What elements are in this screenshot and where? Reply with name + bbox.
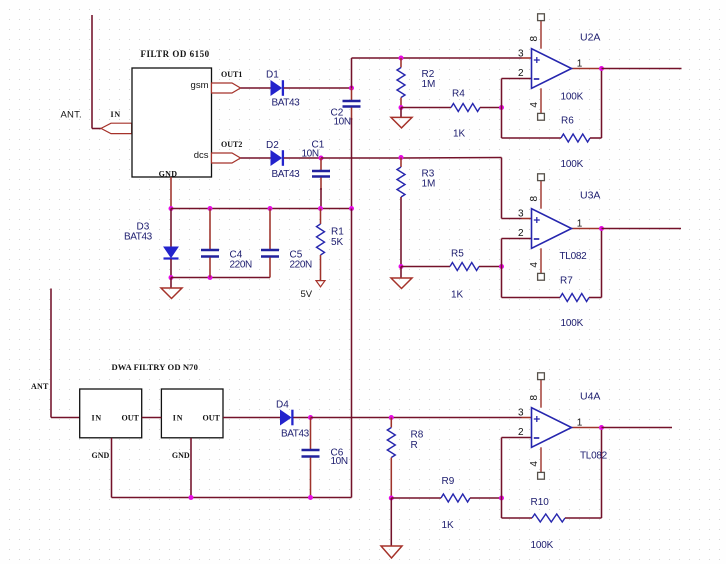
wire R4 to U2A feedback node <box>480 107 502 109</box>
junction C1 top <box>319 156 324 161</box>
wire R6 to U2A output <box>590 137 602 139</box>
svg-text:dcs: dcs <box>194 150 209 161</box>
resistor R5 <box>450 263 479 271</box>
wire U3A pin2 loop <box>502 238 532 240</box>
svg-text:D1: D1 <box>266 70 279 81</box>
svg-text:R7: R7 <box>560 276 573 287</box>
junction C4 bottom <box>208 275 213 280</box>
wire C1 to ground bus <box>320 188 322 209</box>
pin stub U2A pin3 <box>522 57 532 59</box>
port OUT1 <box>212 83 241 93</box>
filter box 1 <box>80 389 142 438</box>
wire ground bus lower <box>171 277 270 279</box>
junction R3 top <box>399 155 404 160</box>
svg-text:5V: 5V <box>301 289 313 300</box>
svg-text:1: 1 <box>577 219 583 230</box>
svg-text:1K: 1K <box>442 520 455 531</box>
op-amp U4A <box>532 379 572 473</box>
svg-text:R10: R10 <box>531 497 550 508</box>
resistor R6 <box>561 134 590 142</box>
wire R8 node to R9 <box>391 497 441 499</box>
diode D1 <box>271 80 283 96</box>
svg-text:GND: GND <box>159 170 178 179</box>
wire ground bus vertical down <box>351 209 353 498</box>
wire U4A output <box>602 427 673 429</box>
svg-text:U3A: U3A <box>580 190 600 202</box>
diode D2 <box>271 150 283 166</box>
junction box2 GND at bus <box>189 495 194 500</box>
wire D4 row to U4A pin3 <box>311 417 392 419</box>
wire ground bus upper <box>171 208 352 210</box>
svg-text:1K: 1K <box>451 290 464 301</box>
ground below R8 <box>381 498 402 558</box>
svg-text:R: R <box>411 440 418 451</box>
diode D4 <box>281 410 293 426</box>
svg-text:1K: 1K <box>453 129 466 140</box>
op-amp U4A output stub <box>572 427 602 429</box>
svg-text:IN: IN <box>92 414 103 423</box>
pin stub U3A pin3 <box>522 218 532 220</box>
junction U4A output <box>599 425 604 430</box>
svg-text:2: 2 <box>518 228 524 239</box>
junction GND bus at filter <box>169 206 174 211</box>
component U1 filter block FILTR OD 6150 <box>132 68 212 177</box>
wire box1 GND down <box>111 438 113 498</box>
wire R10 to U4A output <box>565 517 602 519</box>
junction R8 bottom / R9 node <box>389 496 394 501</box>
junction R3 bottom / R5 node <box>399 264 404 269</box>
wire OUT2 to D2 <box>241 157 272 159</box>
svg-text:ANT.: ANT. <box>61 110 82 121</box>
svg-text:8: 8 <box>529 195 540 201</box>
svg-text:OUT: OUT <box>122 414 140 423</box>
junction U4A inverting feedback node <box>499 496 504 501</box>
op-amp U2A <box>532 20 572 114</box>
wire dcs row to corner <box>321 157 401 159</box>
wire R3 node to R5 <box>401 266 450 268</box>
wire R2 node to R4 <box>401 107 451 109</box>
wire R5 to U3A feedback node <box>479 266 502 268</box>
resistor R8 <box>387 418 395 499</box>
port OUT2 <box>212 153 241 163</box>
svg-text:D4: D4 <box>276 400 289 411</box>
svg-text:BAT43: BAT43 <box>124 232 153 243</box>
ground below R2 <box>391 108 412 128</box>
svg-text:1M: 1M <box>422 179 436 190</box>
wire D2 to C1 node <box>284 157 321 159</box>
svg-text:3: 3 <box>518 209 524 220</box>
wire box2 GND down <box>190 438 192 498</box>
svg-text:1: 1 <box>577 418 583 429</box>
filter box 2 <box>161 389 223 438</box>
wire C2 to ground bus <box>351 118 353 209</box>
U3A pin 4 no-connect <box>538 273 545 280</box>
svg-text:BAT43: BAT43 <box>281 429 310 440</box>
wire bus to D3 <box>170 209 172 248</box>
svg-text:GND: GND <box>172 451 190 460</box>
svg-text:R6: R6 <box>561 116 574 127</box>
junction R8 top <box>389 415 394 420</box>
resistor R2 <box>397 58 405 108</box>
svg-text:100K: 100K <box>561 159 584 170</box>
wire box2 to D4 <box>223 417 281 419</box>
U4A pin 4 no-connect <box>538 472 545 479</box>
svg-text:8: 8 <box>529 35 540 41</box>
svg-text:3: 3 <box>518 49 524 60</box>
wire R9 to U4A feedback node <box>470 497 502 499</box>
svg-text:R5: R5 <box>451 249 464 260</box>
svg-text:IN: IN <box>173 414 184 423</box>
wire antenna vertical to IN port <box>91 15 93 129</box>
resistor R10 <box>532 514 565 522</box>
junction C4 top <box>208 206 213 211</box>
svg-text:100K: 100K <box>531 540 554 551</box>
junction U2A inverting feedback node <box>499 105 504 110</box>
svg-text:TL082: TL082 <box>560 251 588 262</box>
svg-text:ANT: ANT <box>31 382 49 391</box>
wire U3A output <box>602 228 682 230</box>
wire corner to U3A pin3 <box>501 209 503 219</box>
diode D3 <box>164 247 179 259</box>
ground below R3 <box>391 267 412 289</box>
svg-text:10N: 10N <box>334 117 351 128</box>
svg-text:OUT2: OUT2 <box>221 140 242 149</box>
resistor R4 <box>451 104 480 112</box>
svg-text:BAT43: BAT43 <box>272 98 301 109</box>
junction U3A inverting feedback node <box>499 264 504 269</box>
op-amp U3A output stub <box>572 228 602 230</box>
wire U2A output <box>602 68 682 70</box>
wire node up and right to U2A pin 3 <box>351 58 353 88</box>
capacitor C2 <box>343 88 361 120</box>
power port 5V symbol <box>316 281 325 287</box>
junction C6 bottom <box>308 495 313 500</box>
svg-text:TL082: TL082 <box>580 451 608 462</box>
resistor R9 <box>441 494 470 502</box>
svg-text:D2: D2 <box>266 140 279 151</box>
wire filter GND pin down <box>170 177 172 209</box>
junction R1 top <box>318 206 323 211</box>
pin stub U4A pin3 <box>522 417 532 419</box>
svg-text:3: 3 <box>518 408 524 419</box>
svg-text:OUT: OUT <box>203 414 221 423</box>
wire D1 to node <box>284 87 352 89</box>
wire D4 to C6 node <box>293 417 310 419</box>
op-amp U2A output stub <box>572 68 602 70</box>
resistor R7 <box>560 294 589 302</box>
U2A pin 4 no-connect <box>538 113 545 120</box>
svg-text:100K: 100K <box>561 318 584 329</box>
junction U3A output <box>599 226 604 231</box>
junction D3 bottom <box>169 275 174 280</box>
svg-text:4: 4 <box>529 102 540 108</box>
svg-text:GND: GND <box>92 451 110 460</box>
svg-text:8: 8 <box>529 394 540 400</box>
svg-text:10N: 10N <box>302 149 319 160</box>
wire bottom ground bus <box>112 497 352 499</box>
svg-text:5K: 5K <box>331 237 344 248</box>
capacitor C4 <box>201 209 219 278</box>
svg-text:4: 4 <box>529 461 540 467</box>
svg-text:OUT1: OUT1 <box>221 70 242 79</box>
svg-text:U2A: U2A <box>580 32 600 44</box>
op-amp U3A <box>532 180 572 274</box>
svg-text:220N: 220N <box>230 260 252 271</box>
svg-text:1M: 1M <box>422 79 436 90</box>
svg-text:220N: 220N <box>290 260 312 271</box>
svg-text:100K: 100K <box>561 92 584 103</box>
U2A pin 8 no-connect <box>538 14 545 21</box>
resistor R1 <box>317 209 325 281</box>
capacitor C5 <box>261 209 279 278</box>
wire OUT1 to D1 <box>241 87 272 89</box>
port IN of filter block <box>101 123 132 133</box>
wire U4A pin2 loop <box>502 437 532 439</box>
junction U2A output <box>599 66 604 71</box>
svg-text:DWA FILTRY OD N70: DWA FILTRY OD N70 <box>112 362 198 372</box>
junction R2 bottom / R4 node <box>399 105 404 110</box>
junction C5 top <box>268 206 273 211</box>
svg-text:10N: 10N <box>331 456 348 467</box>
junction R2 top <box>399 56 404 61</box>
svg-text:gsm: gsm <box>191 80 209 91</box>
wire U2A pin2 loop <box>502 78 532 80</box>
svg-text:R4: R4 <box>452 89 465 100</box>
capacitor C1 <box>312 158 330 190</box>
svg-text:4: 4 <box>529 262 540 268</box>
svg-text:BAT43: BAT43 <box>272 169 301 180</box>
svg-text:1: 1 <box>577 59 583 70</box>
svg-text:IN: IN <box>111 110 122 119</box>
svg-text:R9: R9 <box>442 476 455 487</box>
svg-text:2: 2 <box>518 427 524 438</box>
U3A pin 8 no-connect <box>538 174 545 181</box>
ground below D3 <box>161 278 182 299</box>
junction C6 top <box>308 415 313 420</box>
capacitor C6 <box>302 418 320 498</box>
junction C2 bottom at bus <box>349 206 354 211</box>
svg-text:R8: R8 <box>411 430 424 441</box>
resistor R3 <box>397 158 405 267</box>
U4A pin 8 no-connect <box>538 373 545 380</box>
svg-text:R1: R1 <box>331 227 344 238</box>
svg-text:FILTR OD 6150: FILTR OD 6150 <box>141 49 210 59</box>
wire R7 to U3A output <box>589 297 602 299</box>
wire lower antenna <box>50 289 52 418</box>
wire box1 to box2 <box>142 417 162 419</box>
svg-text:2: 2 <box>518 68 524 79</box>
junction D1 output node <box>349 86 354 91</box>
wire D3 to lower bus <box>170 259 172 278</box>
svg-text:U4A: U4A <box>580 391 600 403</box>
